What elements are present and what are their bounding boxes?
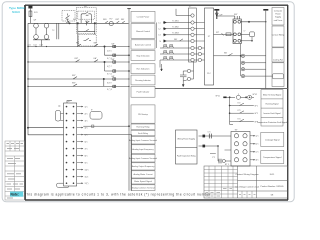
svg-text:Manual Control: Manual Control	[136, 30, 150, 33]
lower-middle relay box	[176, 130, 198, 164]
svg-text:TC M03: TC M03	[172, 33, 179, 35]
contact KA1	[94, 60, 98, 62]
pole contacts row1	[234, 20, 237, 23]
svg-text:W*2: W*2	[255, 113, 258, 115]
wire row C3	[218, 160, 219, 162]
svg-text:SB1: SB1	[103, 19, 107, 21]
svg-text:Cooling Fan: Cooling Fan	[273, 59, 283, 61]
svg-text:Supply: Supply	[275, 17, 281, 19]
svg-text:b(*): b(*)	[256, 144, 259, 146]
svg-text:C*2: C*2	[212, 157, 215, 159]
terminal strip rows	[0, 0, 1, 1]
svg-text:W*1: W*1	[255, 105, 258, 107]
below divider: motor wiring row	[223, 94, 254, 100]
svg-text:Motor Terminal Signal: Motor Terminal Signal	[263, 93, 282, 96]
lamp HL2	[109, 22, 113, 26]
pole contacts row2	[234, 33, 237, 36]
title block texts	[225, 164, 284, 197]
left revision table cell marks	[7, 144, 24, 199]
drawing frame	[25, 5, 288, 200]
svg-text:a(*): a(*)	[256, 136, 259, 138]
overload rows FR	[160, 45, 205, 71]
svg-text:and Trans: and Trans	[274, 19, 282, 22]
wire row C2	[199, 145, 219, 147]
rung labels	[72, 42, 115, 91]
svg-text:11(*): 11(*)	[85, 176, 89, 178]
row labels	[159, 20, 179, 43]
svg-text:Analog Motor Current: Analog Motor Current	[133, 173, 153, 176]
svg-text:KM*: KM*	[75, 58, 79, 60]
svg-text:c(*): c(*)	[256, 152, 259, 154]
wire link to rung2	[77, 31, 79, 46]
svg-text:Stop Indication: Stop Indication	[136, 54, 149, 57]
contact SB0	[66, 21, 69, 23]
svg-text:Power: Power	[275, 13, 281, 16]
rung 4 wire	[28, 78, 129, 80]
svg-text:KM*: KM*	[72, 83, 76, 85]
ground PE	[160, 60, 162, 71]
svg-text:PE Startup: PE Startup	[138, 113, 149, 116]
svg-text:TB*: TB*	[235, 130, 238, 132]
fuse QF2	[215, 13, 218, 17]
jumper loop left	[56, 111, 61, 122]
rung 3 wire	[28, 61, 129, 63]
svg-text:Temperature Signal: Temperature Signal	[263, 156, 282, 159]
title block	[204, 166, 288, 198]
svg-text:KA*: KA*	[112, 43, 115, 46]
svg-text:Contact Wiring: Contact Wiring	[272, 33, 284, 36]
wire riser beside column	[156, 23, 158, 49]
wire rail bottom bend to strip row5	[28, 128, 64, 135]
tap terminal row 3	[241, 68, 244, 71]
transformer TC secondary winding	[34, 35, 39, 40]
tap terminal row 2	[241, 61, 244, 64]
right side info column	[261, 8, 284, 127]
svg-text:Inverter Fault Signal: Inverter Fault Signal	[264, 112, 281, 115]
overload FR3 row	[160, 57, 205, 62]
wire to lower section B	[83, 135, 131, 191]
svg-text:L03: L03	[40, 44, 43, 46]
svg-text:Wiring Power Supply: Wiring Power Supply	[177, 138, 195, 141]
svg-text:SB*: SB*	[94, 42, 98, 44]
branch bus	[229, 97, 254, 124]
svg-text:KA*: KA*	[94, 57, 98, 60]
svg-text:K*2: K*2	[238, 102, 241, 104]
PLC box	[205, 8, 214, 85]
relay group A	[104, 45, 130, 56]
switch SA1	[66, 14, 70, 21]
contact SB1	[84, 12, 89, 15]
svg-text:W*01: W*01	[216, 95, 220, 97]
contact SB5	[105, 21, 108, 23]
svg-text:TC M01: TC M01	[172, 20, 179, 22]
svg-text:Analog Input Common Terminal: Analog Input Common Terminal	[129, 139, 158, 142]
svg-text:C*1: C*1	[208, 131, 211, 133]
title block revision grid	[204, 166, 252, 198]
svg-text:Fault Relay: Fault Relay	[138, 132, 148, 135]
svg-text:KA*: KA*	[112, 75, 115, 78]
svg-text:SB*: SB*	[84, 6, 88, 8]
svg-text:Running Signal: Running Signal	[266, 104, 279, 106]
strip XT2 terminals	[191, 14, 194, 62]
svg-text:PLC: PLC	[207, 73, 211, 75]
function column labels	[129, 16, 158, 190]
svg-text:Fault Inspection Relay: Fault Inspection Relay	[177, 155, 196, 158]
wire joins to strip	[191, 70, 194, 72]
svg-text:L1: L1	[159, 22, 161, 24]
svg-text:Analog Common Terminal: Analog Common Terminal	[132, 186, 156, 189]
terminal row leads	[77, 107, 82, 184]
thermal element FR left	[214, 33, 234, 36]
connector diamond	[248, 95, 252, 99]
left revision table	[5, 141, 25, 200]
svg-text:C*: C*	[244, 31, 246, 33]
wire supply drop	[29, 8, 31, 23]
svg-text:Note:: Note:	[11, 193, 19, 197]
wire row L3	[163, 34, 191, 36]
svg-text:Product Number: 24/2005: Product Number: 24/2005	[261, 185, 285, 188]
bend to block	[230, 124, 233, 126]
terminal strip XT2	[189, 8, 197, 62]
tap terminal row 1	[241, 54, 244, 57]
svg-text:SA*: SA*	[224, 52, 227, 55]
note text bottom with cyan highlight on Note:	[10, 192, 23, 197]
branch row 1	[229, 103, 254, 106]
junction node	[77, 23, 79, 25]
contact on N row	[180, 39, 184, 41]
temperature signal box	[261, 151, 284, 164]
rung 2 wire	[28, 46, 129, 48]
svg-text:HL*: HL*	[110, 18, 113, 20]
capacitor C0	[180, 74, 187, 76]
svg-text:K*: K*	[91, 109, 93, 111]
svg-text:SA*: SA*	[174, 38, 178, 41]
svg-text:KM*: KM*	[116, 19, 120, 21]
contact KM1	[76, 60, 80, 62]
svg-text:FU1: FU1	[34, 12, 38, 14]
svg-text:Fault Indicator: Fault Indicator	[137, 91, 150, 94]
wires relay box to block	[199, 134, 232, 164]
relay group C	[103, 78, 116, 88]
fuse FU1	[29, 11, 32, 17]
terminal arrows	[82, 106, 84, 184]
svg-text:Running Indicator: Running Indicator	[135, 79, 151, 82]
top bus wire	[28, 22, 129, 24]
svg-text:FR*: FR*	[76, 42, 80, 44]
dashed box SB4	[79, 35, 97, 47]
svg-text:K (*) 3: K (*) 3	[107, 89, 112, 91]
labels transformer area	[28, 12, 56, 46]
svg-text:FR*: FR*	[216, 32, 219, 34]
svg-text:Motor Speed Signal: Motor Speed Signal	[134, 180, 152, 183]
terminal ticks inside strip	[66, 106, 75, 184]
labels rung1	[66, 6, 125, 23]
contact SB2 on rung	[85, 21, 90, 25]
contact SA2	[228, 53, 233, 55]
top pole stubs	[234, 16, 236, 19]
incoming supply terminal L	[29, 6, 33, 8]
wire row L2	[163, 28, 191, 30]
svg-text:This diagram is applicable to: This diagram is applicable to circuits 1…	[25, 193, 212, 197]
jumper loop wire	[90, 112, 102, 120]
svg-text:Analog Input Frequency: Analog Input Frequency	[132, 148, 153, 151]
svg-text:XT*: XT*	[68, 101, 71, 103]
svg-text:8(*): 8(*)	[85, 155, 88, 157]
wire secondary bus	[33, 39, 50, 41]
terminal circle upper	[187, 69, 190, 72]
transformer TC primary winding	[34, 23, 39, 28]
wire row L1	[163, 22, 191, 24]
contactor KM*	[217, 16, 242, 44]
svg-text:Run Indication: Run Indication	[137, 68, 150, 71]
svg-text:L3: L3	[159, 35, 161, 37]
wire row N	[163, 40, 191, 42]
terminal wire labels	[85, 106, 89, 185]
svg-text:12(*): 12(*)	[85, 183, 89, 185]
svg-text:KA*: KA*	[121, 18, 125, 21]
RC suppressor	[241, 32, 254, 42]
svg-text:d(*): d(*)	[256, 160, 259, 162]
cable marker W01	[223, 96, 226, 98]
cyan annotation text top-left	[9, 6, 25, 14]
wire to lower section A	[83, 125, 129, 127]
overload FR1 row	[160, 45, 205, 50]
branch row 3	[230, 119, 254, 121]
section divider line	[155, 88, 288, 90]
svg-text:S3A3: S3A3	[12, 10, 20, 14]
svg-text:4 (*) 5: 4 (*) 5	[107, 51, 112, 53]
contact SB4	[84, 38, 92, 40]
contact KM2	[73, 77, 77, 79]
wire bottom jumper loop	[57, 183, 69, 187]
svg-text:9(*): 9(*)	[85, 162, 88, 164]
svg-text:Control Power: Control Power	[137, 16, 150, 19]
contact KM3	[73, 84, 77, 86]
wire links strip to PLC box	[194, 23, 204, 42]
contact SB6	[94, 44, 98, 46]
svg-text:Automatic Control: Automatic Control	[135, 43, 151, 46]
svg-text:KM*: KM*	[234, 14, 238, 16]
pole contacts row3	[234, 39, 237, 42]
overload FR2 row	[160, 51, 205, 56]
block right leads	[250, 136, 254, 160]
wire winding links	[35, 22, 37, 24]
tap terminal row 4	[241, 74, 244, 77]
svg-text:TC M02: TC M02	[172, 27, 179, 29]
capacitor C2	[218, 159, 220, 164]
svg-text:4(*): 4(*)	[85, 127, 88, 129]
title block grid marks	[206, 189, 256, 196]
svg-text:2(*): 2(*)	[85, 113, 88, 115]
svg-text:3(*): 3(*)	[85, 120, 88, 122]
svg-text:N-11: N-11	[270, 174, 275, 176]
left rail wire	[27, 23, 29, 127]
branch row 2	[229, 111, 254, 114]
right rail wire	[128, 9, 130, 191]
wire control feed	[214, 44, 284, 79]
terminal circle lower	[187, 77, 190, 80]
svg-text:Low Voltage Control Circuit: Low Voltage Control Circuit	[235, 186, 260, 189]
svg-text:Contact Wiring Diagram: Contact Wiring Diagram	[235, 173, 258, 176]
svg-text:Analog Output Frequency: Analog Output Frequency	[132, 165, 155, 168]
svg-text:Temperature Protection Fault S: Temperature Protection Fault Signal	[257, 121, 288, 124]
rung 5 wire	[28, 85, 129, 87]
svg-text:K*3: K*3	[238, 110, 241, 112]
svg-text:Leakage Signal: Leakage Signal	[265, 139, 280, 141]
input rows L1-N	[163, 23, 191, 42]
wire bend down	[217, 146, 219, 161]
contact SB3 below	[84, 29, 90, 31]
wire contactor row1 to feed	[241, 11, 265, 23]
filter cluster	[180, 62, 194, 87]
svg-text:W*3: W*3	[255, 121, 258, 123]
svg-text:7(*): 7(*)	[85, 148, 88, 150]
svg-text:W*02: W*02	[253, 94, 257, 96]
contacts on rungs	[73, 44, 130, 88]
ground arrow	[182, 81, 184, 85]
svg-text:K*4: K*4	[238, 119, 241, 121]
wire row C1	[199, 135, 232, 137]
leakage signal box	[261, 132, 284, 146]
svg-text:SA*: SA*	[66, 18, 70, 21]
contact FR1	[77, 44, 81, 46]
page border frame	[2, 2, 294, 202]
svg-text:6 (*) 7: 6 (*) 7	[107, 66, 112, 68]
wire strip top stub	[58, 101, 72, 107]
dashed enclosure SB group outer	[77, 8, 97, 34]
svg-text:Running Relay: Running Relay	[136, 127, 149, 129]
svg-text:1(*): 1(*)	[85, 106, 88, 108]
dashed enclosure SB group inner	[78, 11, 95, 19]
svg-text:KM*: KM*	[72, 75, 76, 77]
function description column	[131, 11, 155, 190]
feed T-bar	[263, 9, 268, 11]
svg-text:Analog Input Common Terminal: Analog Input Common Terminal	[129, 157, 158, 160]
svg-text:Contactor: Contactor	[274, 10, 283, 13]
row source wedges	[164, 21, 167, 43]
incoming feed terminal	[214, 10, 219, 19]
dashed enclosure SA1	[62, 11, 75, 22]
svg-text:KA*: KA*	[112, 58, 115, 61]
svg-text:FU*: FU*	[73, 19, 77, 21]
wire feed top	[176, 9, 191, 16]
terminal strip XT1	[27, 101, 76, 187]
svg-text:XT*: XT*	[189, 6, 192, 8]
connector circle	[236, 95, 240, 99]
terminal block TB lower	[231, 132, 250, 167]
svg-text:6(*): 6(*)	[85, 141, 88, 143]
contact KM0 aux	[116, 21, 125, 23]
wire rail to strip row4	[28, 127, 64, 129]
wire motor drop	[265, 22, 267, 89]
svg-text:SB*: SB*	[85, 21, 89, 23]
wire parallel branch below rung	[78, 23, 95, 31]
relay group B	[104, 61, 130, 72]
wire parallel branch above rung	[81, 14, 91, 24]
transformer core lines	[56, 23, 58, 39]
svg-text:L2: L2	[159, 29, 161, 31]
svg-text:10(*): 10(*)	[85, 169, 89, 171]
svg-text:8 (*) 9: 8 (*) 9	[107, 83, 112, 85]
rail junction nodes	[27, 46, 129, 87]
